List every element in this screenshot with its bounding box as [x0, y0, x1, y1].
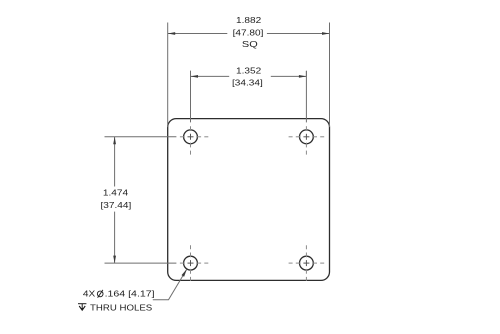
svg-text:[47.80]: [47.80] [233, 28, 264, 37]
svg-text:SQ: SQ [242, 40, 258, 49]
svg-text:1.474: 1.474 [103, 188, 128, 197]
svg-text:[34.34]: [34.34] [232, 78, 263, 87]
svg-text:THRU HOLES: THRU HOLES [90, 303, 152, 312]
svg-text:1.352: 1.352 [236, 66, 261, 75]
svg-text:[37.44]: [37.44] [101, 201, 132, 210]
svg-text:1.882: 1.882 [236, 16, 261, 25]
svg-text:4X: 4X [83, 289, 95, 298]
svg-text:.164 [4.17]: .164 [4.17] [105, 289, 155, 299]
